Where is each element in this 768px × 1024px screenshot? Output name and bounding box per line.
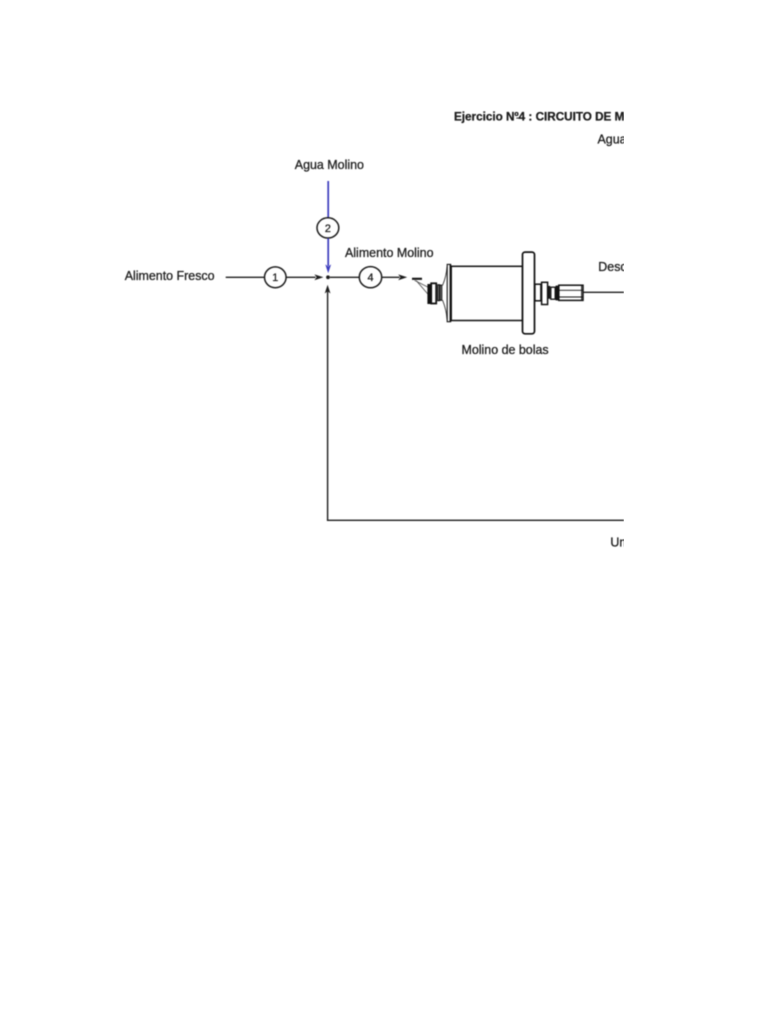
junction dot [326, 275, 330, 279]
mill right collar A [535, 284, 541, 301]
wire: feed line to circle 1 [226, 276, 265, 278]
svg-text:Alimento Fresco: Alimento Fresco [125, 269, 215, 283]
svg-text:Ejercicio Nº4 : CIRCUITO DE MO: Ejercicio Nº4 : CIRCUITO DE MOLIENDA [454, 110, 677, 123]
mill discharge ribbed cylinder [559, 285, 583, 300]
ribbed cylinder end line [581, 286, 583, 300]
node circle 4 [359, 267, 381, 288]
svg-text:Underflow: Underflow [610, 536, 667, 550]
mill right flange [523, 252, 535, 334]
mill left collar 2 [438, 285, 440, 301]
ribbed cylinder line 2 [559, 296, 583, 298]
mill left head plate [447, 264, 450, 321]
wire: discharge line [584, 291, 624, 293]
wire: blue stream 2 lower segment [327, 238, 329, 266]
svg-text:4: 4 [367, 272, 373, 284]
wire: junction to circle 4 [330, 276, 360, 278]
mill left collar 3 [440, 285, 442, 300]
arrowhead up at junction [325, 285, 331, 294]
feed chute diagonal 2 [416, 281, 428, 294]
mill right bearing B [542, 282, 548, 304]
mill right collar C [551, 287, 555, 299]
mill right black bar 1 [548, 286, 550, 299]
title ordinal underline [516, 118, 521, 119]
svg-text:Descarga: Descarga [598, 260, 651, 274]
feed chute dash [412, 278, 422, 280]
node circle 1 [265, 267, 287, 288]
svg-text:Alimento Molino: Alimento Molino [345, 246, 434, 260]
wire: recycle bottom horizontal line [327, 519, 624, 521]
svg-text:Agua Molino: Agua Molino [295, 158, 364, 172]
wire: circle 1 to junction with arrowhead [286, 276, 315, 278]
svg-text:1: 1 [272, 272, 278, 284]
wire: circle 4 to mill with arrowhead [382, 276, 400, 278]
mill left trunnion black bar [427, 284, 430, 304]
svg-text:Agua Cajon: Agua Cajon [598, 133, 663, 147]
node circle 2 [317, 218, 339, 238]
svg-text:2: 2 [325, 223, 331, 235]
mill left trunnion collar [431, 283, 436, 303]
wire: recycle vertical line [327, 292, 329, 521]
ribbed cylinder line 1 [559, 289, 583, 291]
svg-text:Molino de bolas: Molino de bolas [462, 343, 549, 357]
feed chute diagonal 1 [415, 280, 428, 287]
mill right black bar 2 [556, 286, 559, 301]
mill left head thick edge [449, 264, 451, 321]
mill drum [451, 266, 522, 320]
arrowhead blue down [325, 264, 331, 273]
mill bell cone top [443, 267, 448, 286]
wire: blue stream 2 upper segment [327, 181, 329, 217]
mill bell cone bottom [443, 300, 448, 320]
